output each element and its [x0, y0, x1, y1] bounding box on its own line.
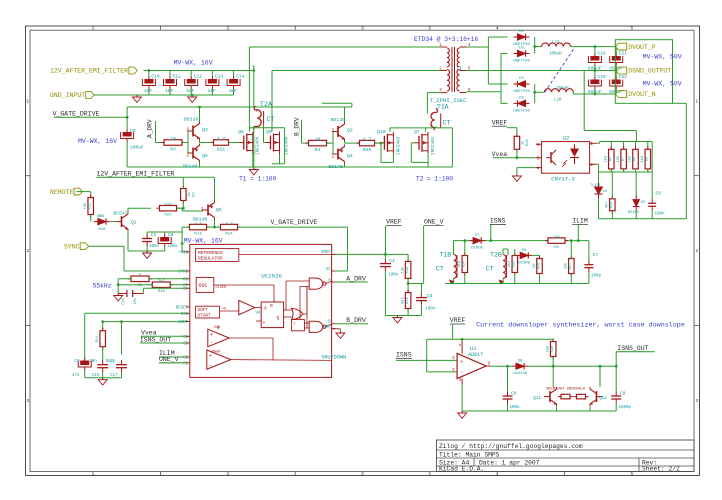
junction [463, 239, 466, 242]
resistor R25 [507, 253, 518, 276]
svg-text:12V_AFTER_EMI_FILTER: 12V_AFTER_EMI_FILTER [97, 171, 175, 178]
label Vvea [492, 151, 508, 158]
diode D9 [512, 360, 528, 377]
diode D2 [513, 96, 530, 113]
svg-text:R7: R7 [621, 157, 625, 161]
wire onev down [423, 226, 425, 284]
label C8 [167, 232, 178, 249]
label VREF div [386, 219, 402, 226]
gate U6 [292, 286, 307, 328]
svg-text:5: 5 [631, 471, 634, 477]
resistor R1 [128, 274, 152, 288]
wire vref v [516, 128, 518, 134]
label A_DRV [147, 119, 154, 138]
wire cap bottom [233, 89, 235, 95]
wire mvwx down [253, 65, 255, 71]
svg-text:+: + [209, 354, 212, 360]
resistor R11 [96, 328, 106, 350]
diode D7 [469, 234, 485, 251]
wire r15 bot [407, 278, 409, 292]
wire cap top [190, 71, 192, 77]
svg-text:R5: R5 [554, 246, 559, 250]
wire opto4 v [516, 168, 518, 174]
transistor Q11 [544, 387, 557, 406]
wire cap lead [615, 47, 617, 53]
wire ds gnd rail [462, 410, 616, 412]
svg-text:BD140: BD140 [183, 164, 198, 170]
svg-text:ONE_V: ONE_V [424, 219, 444, 226]
svg-text:R20: R20 [363, 147, 372, 153]
pin 2 U1 [452, 369, 455, 373]
wire t1b top [453, 241, 455, 255]
wire c17 bot [121, 372, 123, 378]
wire left v [117, 279, 119, 294]
wire d8 down [539, 255, 541, 257]
transistor Q1 [116, 212, 129, 231]
svg-text:CT: CT [266, 116, 274, 124]
label C15 [89, 360, 99, 378]
wire vgd mid [240, 226, 348, 228]
wire div feed [635, 131, 637, 142]
label CT T1A [443, 120, 451, 128]
wire isnsout h [616, 351, 655, 353]
wire r27 bot [570, 274, 572, 284]
pin 6 T1 [468, 89, 471, 93]
IC U5 UC2526 outline [190, 244, 332, 377]
opto-coupler U2 [541, 142, 589, 174]
current transformer T1B [449, 255, 457, 284]
resistor R14 [218, 223, 241, 237]
diode D3 [513, 47, 530, 64]
wire t1 pin1 [249, 46, 440, 48]
wire right vertical [685, 103, 687, 219]
wire vvea [493, 157, 536, 159]
label VREF opto [492, 119, 508, 126]
ground [393, 316, 402, 323]
wire c5 bot [420, 305, 422, 315]
label B_DRV [294, 117, 301, 136]
junction [615, 69, 618, 72]
hierarchical label 12V_AFTER_EMI_FILTER [50, 67, 137, 75]
wire r25 bot [514, 273, 516, 284]
svg-text:VREF: VREF [386, 219, 402, 226]
wire bottom rail [127, 166, 452, 168]
label C9d [619, 391, 632, 411]
wire cap gnd rail [137, 94, 234, 96]
underline ISNS [490, 223, 506, 225]
ground [458, 411, 467, 418]
underline ISNS_OUT ds [617, 351, 649, 353]
svg-text:100n: 100n [655, 213, 666, 217]
label BD139 b [331, 117, 346, 123]
wire 12v rail2 [97, 176, 215, 178]
wire L1A out [571, 46, 616, 48]
svg-text:R21: R21 [217, 147, 226, 153]
wire opto p2 h [596, 163, 598, 165]
wire emitters [199, 141, 201, 143]
U5 left pins [176, 251, 190, 366]
label CNY17-3 [551, 176, 575, 183]
junction [577, 239, 580, 242]
svg-text:10: 10 [315, 137, 321, 143]
note 55kHz [93, 283, 112, 290]
flip flop [286, 281, 309, 331]
wire c9d top [615, 366, 617, 391]
wire div bottom rail [599, 171, 653, 173]
svg-text:+: + [460, 359, 463, 365]
svg-text:1mF: 1mF [229, 88, 238, 94]
label IRFZ48V Q9 [285, 136, 290, 155]
svg-text:T1: T1 [456, 66, 462, 72]
ground [114, 294, 123, 301]
label Q3 [202, 127, 208, 133]
svg-text:R16: R16 [406, 296, 410, 304]
svg-text:100n: 100n [388, 273, 399, 277]
wire src to rail [427, 162, 429, 167]
sheet pin DVOUT_P [615, 43, 655, 51]
svg-text:C5: C5 [427, 293, 433, 299]
wire q12 emit [589, 406, 591, 411]
wire cap lead2 [615, 66, 617, 71]
wire t1b corner [454, 240, 458, 242]
pin 1 U2 [590, 141, 593, 147]
wire loop left top [126, 107, 128, 117]
value 100uF [130, 145, 144, 151]
svg-text:R28: R28 [551, 345, 555, 353]
pin 2 T1 [439, 67, 442, 71]
diode U3 TL431 [590, 183, 607, 198]
wire t2b elbow [503, 248, 508, 250]
svg-text:D1: D1 [519, 30, 524, 34]
label D6 ref [97, 215, 102, 219]
wire q7 drain [425, 128, 427, 132]
underline [140, 342, 172, 344]
wire css v [84, 313, 86, 359]
svg-text:C19: C19 [597, 51, 606, 57]
svg-text:1k1: 1k1 [507, 261, 512, 267]
wire isnsout in [140, 342, 186, 344]
svg-text:2: 2 [26, 248, 29, 254]
junction [148, 69, 151, 72]
pin 5 U2 [537, 156, 540, 162]
wire q3 collector [199, 107, 201, 122]
underline [159, 356, 175, 358]
svg-text:L1A: L1A [552, 41, 560, 45]
wire c15 bot [102, 372, 104, 378]
svg-text:C10: C10 [151, 74, 160, 80]
label 2N2904 [546, 388, 585, 392]
wire t1 pin3 stub [427, 92, 440, 94]
wire t2a sec to q9 gate [263, 125, 265, 143]
label V_GATE_DRIVE [53, 111, 100, 118]
wire q1 emit [127, 231, 129, 251]
wire vc v [347, 227, 349, 271]
ground [512, 174, 521, 181]
wire cap lead2 [594, 90, 596, 95]
label B_DRV out [346, 317, 366, 324]
svg-text:ETD34 @ 3+3:16+16: ETD34 @ 3+3:16+16 [414, 36, 478, 43]
wire r1 bot [182, 201, 184, 209]
junction [594, 69, 597, 72]
wire q6 emit [214, 177, 216, 200]
svg-text:-: - [460, 369, 463, 375]
junction [117, 283, 120, 286]
svg-text:ISNS_OUT: ISNS_OUT [140, 336, 171, 343]
junction [126, 116, 129, 119]
svg-text:20n: 20n [89, 360, 97, 364]
wire cap bottom [148, 89, 150, 95]
wire top rail [127, 106, 352, 108]
svg-text:Q8: Q8 [238, 129, 244, 135]
label IRFZ48V Q10 [397, 136, 402, 155]
capacitor None [380, 259, 391, 271]
svg-text:+: + [210, 332, 213, 338]
svg-text:B_DRV: B_DRV [294, 117, 301, 136]
pin stubs U1 [462, 339, 490, 384]
svg-text:Sheet: 2/2: Sheet: 2/2 [642, 466, 680, 473]
svg-text:ISNS: ISNS [490, 217, 506, 224]
svg-text:C21: C21 [619, 51, 628, 57]
wire dgnd elbow [584, 130, 636, 132]
svg-text:C15: C15 [92, 374, 100, 378]
U5 right pins [321, 251, 336, 329]
resistor R16 [400, 290, 411, 312]
underline [159, 362, 179, 364]
svg-text:U4: U4 [256, 312, 262, 316]
svg-text:1500p: 1500p [619, 406, 632, 410]
wire c3 rail [147, 231, 182, 233]
wire c3 v [146, 232, 148, 234]
reference regulator [196, 249, 332, 262]
wire q5 collector [199, 163, 201, 168]
wire q8 drain up T1 pin1 [248, 47, 250, 128]
wire bottom up [451, 128, 453, 167]
svg-text:5: 5 [537, 156, 540, 162]
svg-text:MV-WX, 16V: MV-WX, 16V [78, 138, 117, 145]
wire c9c top [507, 366, 509, 391]
sheet pin DVOUT_N [615, 91, 655, 99]
label T1 [456, 66, 462, 72]
svg-text:Q12: Q12 [599, 396, 607, 401]
wire t1 pin2 [272, 70, 440, 72]
svg-text:15k: 15k [400, 266, 405, 274]
wire fb top [427, 338, 554, 340]
junction [182, 207, 185, 210]
hierarchical label REMOTE [50, 188, 82, 196]
wire c9b bot [84, 371, 86, 378]
wire q9 src loop v [284, 128, 286, 164]
svg-text:REMOTE: REMOTE [50, 189, 74, 196]
wire isns v [490, 224, 492, 240]
svg-text:1k: 1k [187, 192, 192, 197]
label ONE_V div [424, 219, 444, 226]
svg-text:A_DRV: A_DRV [147, 119, 154, 138]
junction [533, 91, 536, 94]
junction [407, 282, 410, 285]
svg-text:1: 1 [590, 141, 593, 147]
junction [516, 156, 519, 159]
wire mvwx to t2a [253, 71, 255, 109]
wire c8 v2 [164, 232, 166, 234]
pin 4 U2 [537, 166, 540, 172]
underline ONE_V div [424, 225, 444, 227]
junction [533, 45, 536, 48]
svg-text:L1B: L1B [554, 99, 562, 103]
label C6 [655, 191, 666, 217]
label T_2PRI_2SEC T1 [0, 0, 1, 1]
pin stubs U2 [536, 143, 596, 167]
svg-text:3: 3 [26, 398, 29, 404]
svg-text:T1 = 1:100: T1 = 1:100 [239, 175, 276, 182]
label C9b [72, 358, 80, 378]
pin 3 Q4 [332, 156, 335, 160]
svg-text:T2B: T2B [490, 252, 502, 259]
svg-text:R9: R9 [646, 157, 650, 161]
power label MV-WX 16V [174, 60, 213, 67]
underline VREF div [386, 225, 401, 227]
label Q9 [266, 129, 272, 135]
svg-text:C9: C9 [620, 391, 626, 397]
label U2 [563, 135, 570, 142]
svg-text:R19: R19 [158, 290, 166, 294]
svg-text:SYNC: SYNC [64, 243, 80, 250]
wire sense rail [457, 240, 583, 242]
wire d8 out [532, 254, 539, 256]
wire d3 row [501, 53, 508, 55]
pin 2 T1A [430, 125, 433, 129]
wire sheet ext [673, 102, 687, 104]
wire base tie [187, 131, 189, 153]
junction [570, 239, 573, 242]
wire q7 source [427, 154, 429, 163]
wire r top [647, 142, 649, 150]
svg-text:T_2PRI_2SEC: T_2PRI_2SEC [430, 97, 468, 104]
svg-text:1k: 1k [532, 264, 537, 268]
svg-text:R24: R24 [463, 261, 467, 267]
svg-text:4.7: 4.7 [217, 136, 226, 142]
junction [594, 45, 597, 48]
wire q11 coll [552, 366, 554, 387]
svg-text:10: 10 [170, 136, 176, 142]
pin 1 T1A [431, 113, 434, 117]
underline VREF ds [450, 323, 465, 325]
svg-text:D7: D7 [475, 234, 480, 238]
svg-text:R3: R3 [170, 147, 176, 153]
power label MV-WX 50V b [643, 81, 682, 88]
coupling dashes [544, 49, 573, 93]
svg-text:CLOCK: CLOCK [216, 286, 228, 290]
wire rect v2 [500, 54, 502, 104]
wire gnd rail left [85, 377, 122, 379]
wire r top [623, 142, 625, 150]
wire q10 gs h [381, 161, 393, 163]
transistor Q4 [332, 145, 345, 164]
svg-text:BD140: BD140 [329, 164, 344, 170]
sheet pin DGND_OUTPUT [615, 67, 671, 75]
svg-text:47u: 47u [72, 374, 80, 378]
wire cap bottom [211, 89, 213, 95]
label Q2 [347, 128, 353, 134]
wire gnd input [94, 94, 137, 96]
svg-text:VIN: VIN [214, 326, 220, 330]
svg-text:R14: R14 [225, 232, 233, 236]
wire opto p1 v [599, 142, 601, 144]
wire q11 emit [556, 406, 558, 411]
svg-text:Q10: Q10 [377, 129, 386, 135]
wire ct [143, 287, 186, 289]
svg-text:R6: R6 [609, 157, 613, 161]
wire cap top [148, 71, 150, 77]
resistor R9 [640, 146, 651, 172]
wire opto p1 [596, 142, 599, 144]
wire out [490, 365, 512, 367]
label ILIM left [159, 350, 175, 357]
wire c6 bot [651, 211, 653, 219]
label Q12 [599, 396, 607, 401]
capacitor None [416, 293, 427, 305]
wire q12 coll [599, 366, 601, 387]
inductor L1B [544, 87, 573, 103]
wire t2b top [502, 249, 504, 255]
label BD140 q6 [193, 216, 208, 222]
pin 6 U2 [537, 142, 540, 148]
hierarchical label GND_INPUT [50, 92, 94, 100]
svg-text:Vvea: Vvea [492, 151, 508, 158]
label IRFZ48V Q7 [431, 136, 436, 155]
svg-text:+0: +0 [222, 308, 226, 312]
svg-text:BD139: BD139 [184, 117, 199, 123]
wire ilim in [159, 356, 186, 358]
label C17 [106, 360, 119, 378]
wire r bot [647, 169, 649, 172]
wire q10 drain [389, 128, 391, 132]
svg-text:1mF: 1mF [165, 88, 174, 94]
junction [461, 338, 464, 341]
svg-text:C11: C11 [173, 74, 182, 80]
resistor R28 [545, 339, 556, 360]
svg-text:ONE_V: ONE_V [159, 356, 179, 363]
label UC2526 [261, 273, 282, 280]
ground [143, 251, 152, 258]
wire cap top [233, 71, 235, 77]
wire t2a to q9 gate h [264, 142, 266, 144]
wire q9 source [279, 154, 281, 164]
wire to q6 base [182, 210, 203, 212]
svg-text:3: 3 [361, 26, 364, 32]
svg-text:BD139: BD139 [331, 117, 346, 123]
wire t1b bot [453, 278, 455, 283]
svg-text:1k: 1k [521, 140, 526, 145]
wire div rail [600, 141, 653, 143]
transistor Q3 [187, 122, 200, 141]
wire q9 src loop h [272, 163, 285, 165]
svg-text:1: 1 [92, 471, 95, 477]
label U1 [470, 346, 476, 352]
svg-text:Q4: Q4 [347, 153, 353, 159]
note T1 ratio [239, 175, 276, 182]
svg-text:R25: R25 [513, 261, 517, 267]
wire remote v [90, 192, 92, 197]
power label MV-WX 16V [78, 138, 117, 145]
wire sync h [88, 245, 124, 247]
wire a_drv h [156, 142, 165, 144]
wire d4 row [488, 83, 507, 85]
svg-text:DIODE: DIODE [518, 261, 531, 265]
wire r21 to gate [229, 142, 239, 144]
junction [506, 365, 509, 368]
wire r top [635, 142, 637, 150]
wire emitters b [344, 141, 346, 143]
